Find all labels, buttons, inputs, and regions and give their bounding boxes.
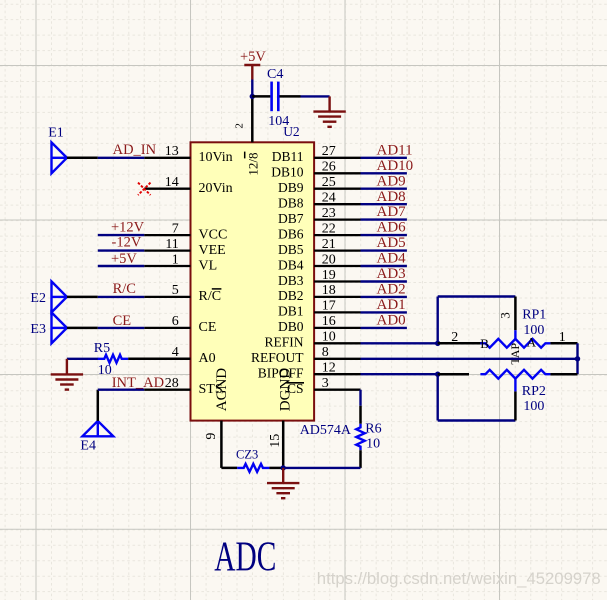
- title ADC: [214, 534, 276, 580]
- connector E3: [30, 312, 67, 343]
- junction DGND node: [281, 465, 286, 470]
- wire AD8 net: [361, 203, 407, 205]
- svg-text:AD11: AD11: [377, 142, 413, 158]
- svg-text:DB0: DB0: [278, 319, 304, 334]
- pin 5 R/C (left): [144, 283, 190, 298]
- svg-text:11: 11: [165, 237, 178, 252]
- svg-text:DB4: DB4: [278, 257, 304, 272]
- net label AD7: [377, 204, 407, 220]
- RP1 pin 1 wire: [550, 330, 577, 345]
- svg-text:DB10: DB10: [271, 165, 304, 180]
- connector E4: [80, 421, 113, 454]
- pin 26 DB10 (right): [271, 160, 360, 180]
- svg-text:12/8: 12/8: [245, 152, 260, 175]
- svg-text:2: 2: [234, 123, 246, 129]
- svg-text:14: 14: [165, 175, 179, 190]
- svg-text:15: 15: [268, 434, 283, 448]
- pin 1 VL (left): [144, 252, 217, 273]
- net label INT_AD: [112, 375, 164, 391]
- svg-text:1: 1: [172, 252, 179, 267]
- pin 16 DB0 (right): [278, 314, 361, 334]
- svg-text:CZ3: CZ3: [236, 447, 258, 461]
- net label AD9: [377, 173, 406, 189]
- svg-text:AD2: AD2: [377, 282, 406, 298]
- wire AD3 net: [361, 280, 407, 282]
- svg-text:DB2: DB2: [278, 288, 304, 303]
- RP2 pin A wire: [550, 373, 577, 376]
- wire AD11 net: [361, 157, 407, 159]
- pin 3 CS (right): [314, 376, 360, 391]
- net label AD2: [377, 282, 406, 298]
- pin 13 10Vin (left): [144, 144, 232, 165]
- svg-text:ADC: ADC: [214, 534, 276, 580]
- RP1 pin 3 stub: [498, 297, 516, 331]
- pin 23 DB7 (right): [278, 206, 361, 226]
- wire R5 to chip: [128, 358, 190, 361]
- svg-text:5: 5: [172, 283, 179, 298]
- svg-text:DB7: DB7: [278, 211, 304, 226]
- svg-text:AD9: AD9: [377, 173, 406, 189]
- net label +12V: [111, 219, 145, 235]
- wire R/C net: [98, 296, 144, 298]
- op-amp U2 AD574A chip body: [191, 142, 315, 420]
- pin 9 AGND (bottom): [204, 368, 230, 468]
- svg-text:104: 104: [268, 114, 289, 129]
- wire -12V net: [98, 249, 144, 251]
- svg-text:+12V: +12V: [111, 219, 145, 235]
- svg-text:CE: CE: [113, 313, 132, 329]
- svg-text:AD3: AD3: [377, 266, 406, 282]
- svg-text:DB9: DB9: [278, 180, 304, 195]
- svg-text:16: 16: [322, 314, 336, 329]
- pin 24 DB8 (right): [278, 191, 361, 211]
- pin 14 20Vin (left): [144, 175, 232, 196]
- net label AD3: [377, 266, 406, 282]
- no-connect X on pin 14: [138, 183, 151, 196]
- svg-text:AD4: AD4: [377, 251, 407, 267]
- power +5V symbol: [240, 49, 266, 79]
- pin 12 BIPOFF (right): [258, 361, 361, 381]
- svg-text:20: 20: [322, 252, 336, 267]
- net label AD0: [377, 313, 406, 329]
- pin 15 DGND (bottom): [268, 368, 293, 468]
- net label AD_IN: [113, 142, 157, 158]
- svg-text:AGND: AGND: [214, 368, 230, 411]
- pin 3 name CS with overline: [286, 381, 304, 396]
- wire AD2 net: [361, 296, 407, 298]
- svg-text:E3: E3: [30, 322, 46, 337]
- svg-text:DB1: DB1: [278, 304, 304, 319]
- svg-text:100: 100: [523, 399, 544, 414]
- RP2 wiper lead: [514, 379, 516, 392]
- svg-text:24: 24: [322, 191, 336, 206]
- connector E2: [30, 281, 67, 312]
- wire REFOUT net: [361, 358, 578, 360]
- svg-text:28: 28: [165, 376, 179, 391]
- pin 2 12/8 (top): [234, 96, 261, 175]
- svg-text:https://blog.csdn.net/weixin_4: https://blog.csdn.net/weixin_45209978: [317, 569, 601, 588]
- net label AD1: [377, 297, 406, 313]
- wire R6 to junction: [283, 467, 360, 469]
- wire AD0 net: [361, 327, 407, 329]
- wire AD_IN net: [98, 157, 144, 159]
- pin 8 REFOUT (right): [251, 345, 361, 365]
- svg-text:12: 12: [322, 361, 336, 376]
- svg-text:+5V: +5V: [240, 49, 266, 65]
- ground GND (C4): [313, 96, 345, 126]
- net label R/C: [113, 281, 136, 297]
- wire REFIN loop up-left: [437, 297, 439, 344]
- svg-text:27: 27: [322, 144, 336, 159]
- wire right vertical: [576, 343, 578, 374]
- svg-text:REFIN: REFIN: [264, 335, 303, 350]
- svg-text:R6: R6: [365, 421, 381, 436]
- wire BIPOFF net: [361, 373, 438, 375]
- svg-text:10Vin: 10Vin: [199, 150, 233, 165]
- svg-text:22: 22: [322, 221, 336, 236]
- watermark: [317, 569, 601, 588]
- svg-text:10: 10: [366, 436, 380, 451]
- E4 pin stub: [97, 390, 100, 421]
- svg-text:AD8: AD8: [377, 189, 406, 205]
- E1 pin stub: [67, 157, 98, 160]
- svg-text:13: 13: [165, 144, 179, 159]
- wire CS net: [359, 390, 361, 406]
- pin 6 CE (left): [144, 314, 216, 335]
- wire REFIN net: [361, 342, 438, 344]
- svg-text:100: 100: [523, 323, 544, 338]
- RP2 labels: [522, 384, 546, 414]
- pin 17 DB1 (right): [278, 299, 361, 319]
- net label AD4: [377, 251, 407, 267]
- junction REFOUT/right vertical: [575, 356, 580, 361]
- pin 22 DB6 (right): [278, 221, 361, 241]
- junction node pin2/C4: [250, 94, 255, 99]
- pin 20 DB4 (right): [278, 252, 361, 272]
- svg-text:REFOUT: REFOUT: [251, 350, 304, 365]
- svg-text:8: 8: [322, 345, 329, 360]
- wire AD10 net: [361, 172, 407, 174]
- svg-text:C4: C4: [267, 67, 283, 82]
- net label AD5: [377, 235, 406, 251]
- net label AD6: [377, 220, 407, 236]
- svg-text:1: 1: [559, 330, 566, 345]
- svg-text:-12V: -12V: [112, 234, 142, 250]
- svg-text:DB8: DB8: [278, 196, 304, 211]
- svg-text:10: 10: [98, 363, 112, 378]
- svg-text:CE: CE: [199, 320, 217, 335]
- pin 19 DB3 (right): [278, 268, 361, 288]
- pin 25 DB9 (right): [278, 175, 361, 195]
- svg-text:RP2: RP2: [522, 384, 546, 399]
- svg-text:AD574A: AD574A: [300, 423, 352, 438]
- wire REFIN loop top: [438, 295, 516, 297]
- svg-text:B: B: [480, 336, 489, 351]
- wire BIPOFF loop bottom: [438, 419, 516, 421]
- svg-text:20Vin: 20Vin: [199, 181, 233, 196]
- svg-text:R/C: R/C: [113, 281, 136, 297]
- svg-text:AD10: AD10: [377, 158, 414, 174]
- svg-text:21: 21: [322, 237, 336, 252]
- svg-text:DB3: DB3: [278, 273, 304, 288]
- designator U2: [283, 124, 300, 139]
- wire +5V net (left): [98, 265, 144, 267]
- net label AD10: [377, 158, 414, 174]
- svg-text:10: 10: [322, 330, 336, 345]
- svg-text:2: 2: [451, 330, 458, 345]
- pin 7 VCC (left): [144, 221, 227, 242]
- resistor R6: [356, 406, 381, 468]
- svg-text:7: 7: [172, 221, 179, 236]
- potentiometer RP1 body: [480, 335, 550, 365]
- pin 10 REFIN (right): [264, 330, 360, 350]
- svg-text:TAP: TAP: [508, 343, 522, 365]
- RP1 pin 2 wire: [438, 330, 483, 345]
- svg-text:9: 9: [204, 433, 219, 440]
- resistor CZ3: [221, 447, 283, 472]
- value AD574A: [300, 423, 352, 438]
- svg-text:3: 3: [322, 376, 329, 391]
- svg-text:A0: A0: [199, 351, 216, 366]
- wire AD4 net: [361, 265, 407, 267]
- pin 4 A0 (left): [144, 345, 215, 366]
- svg-text:23: 23: [322, 206, 336, 221]
- svg-text:VEE: VEE: [199, 243, 226, 258]
- svg-text:R5: R5: [94, 341, 110, 356]
- svg-text:25: 25: [322, 175, 336, 190]
- svg-text:E1: E1: [48, 126, 64, 141]
- svg-text:+5V: +5V: [111, 251, 137, 267]
- junction BIPOFF/RP2: [435, 372, 440, 377]
- svg-text:RP1: RP1: [522, 308, 546, 323]
- svg-text:AD7: AD7: [377, 204, 407, 220]
- ground GND (R5): [51, 359, 83, 390]
- svg-text:AD1: AD1: [377, 297, 406, 313]
- pin 18 DB2 (right): [278, 283, 361, 303]
- resistor R5: [94, 341, 128, 378]
- net label -12V: [112, 234, 142, 250]
- svg-text:DB5: DB5: [278, 242, 304, 257]
- wire +12V net: [98, 234, 144, 236]
- svg-text:VL: VL: [199, 258, 218, 273]
- svg-text:18: 18: [322, 283, 336, 298]
- svg-text:R/C: R/C: [199, 289, 222, 304]
- svg-text:AD_IN: AD_IN: [113, 142, 157, 158]
- RP2 wiper stub: [514, 391, 517, 420]
- svg-text:INT_AD: INT_AD: [112, 375, 164, 391]
- junction REFIN/RP1: [435, 341, 440, 346]
- svg-text:DGND: DGND: [278, 368, 294, 411]
- pin 11 VEE (left): [144, 237, 226, 258]
- connector E1: [48, 126, 67, 174]
- wire C4 to ground: [301, 95, 330, 97]
- E3 pin stub: [67, 327, 98, 330]
- svg-text:DB6: DB6: [278, 226, 304, 241]
- wire CE net: [98, 327, 144, 329]
- svg-text:AD6: AD6: [377, 220, 407, 236]
- wire A0 net: [67, 358, 99, 360]
- wire AD9 net: [361, 187, 407, 189]
- svg-text:6: 6: [172, 314, 179, 329]
- svg-text:19: 19: [322, 268, 336, 283]
- net label AD11: [377, 142, 413, 158]
- svg-text:26: 26: [322, 160, 336, 175]
- net label +5V (left): [111, 251, 137, 267]
- E2 pin stub: [67, 296, 98, 299]
- wire AD1 net: [361, 311, 407, 313]
- svg-text:AD0: AD0: [377, 313, 406, 329]
- net label AD8: [377, 189, 406, 205]
- svg-text:E2: E2: [30, 291, 46, 306]
- svg-text:E4: E4: [80, 439, 96, 454]
- RP2 pin B wire: [438, 373, 469, 376]
- wire BIPOFF loop down-left: [437, 374, 439, 420]
- RP1 wiper lead: [514, 330, 516, 339]
- pin 28 STS (left): [144, 376, 222, 397]
- RP1 labels: [522, 308, 546, 339]
- net label CE: [113, 313, 132, 329]
- wire +5V to node: [251, 80, 253, 97]
- pin 21 DB5 (right): [278, 237, 361, 257]
- svg-text:DB11: DB11: [272, 149, 304, 164]
- wire AD6 net: [361, 234, 407, 236]
- capacitor C4: [252, 67, 300, 129]
- svg-text:VCC: VCC: [199, 227, 228, 242]
- wire STS net: [98, 389, 144, 391]
- wire AD7 net: [361, 218, 407, 220]
- pin 27 DB11 (right): [272, 144, 361, 164]
- svg-text:AD5: AD5: [377, 235, 406, 251]
- svg-text:3: 3: [498, 312, 513, 319]
- wire AD5 net: [361, 249, 407, 251]
- svg-text:17: 17: [322, 299, 336, 314]
- potentiometer RP2 body: [480, 370, 550, 379]
- ground GND (centre): [267, 468, 299, 498]
- pin 5 name R/C with overline: [199, 289, 222, 304]
